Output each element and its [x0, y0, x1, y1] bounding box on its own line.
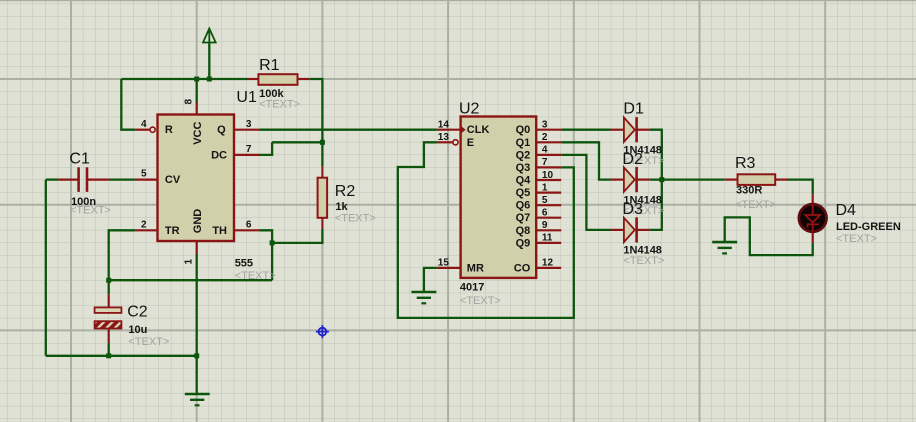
ground (U2 MR) [411, 292, 436, 303]
wire TR vertical to C2 [109, 230, 135, 294]
svg-text:12: 12 [542, 258, 554, 269]
wire U2 Q8 stub [536, 229, 561, 231]
svg-text:7: 7 [246, 144, 252, 155]
wire R3 right stub [775, 179, 787, 181]
svg-text:<TEXT>: <TEXT> [259, 99, 300, 111]
wire D1 cathode stub [638, 129, 650, 131]
svg-text:1: 1 [184, 259, 195, 265]
svg-text:Q2: Q2 [516, 149, 531, 161]
svg-text:<TEXT>: <TEXT> [460, 295, 501, 307]
svg-text:R2: R2 [335, 183, 356, 200]
node DC junction [320, 140, 325, 145]
wire 555 pin3 stub [234, 129, 260, 131]
wire C1 left [46, 178, 59, 180]
svg-text:5: 5 [542, 195, 548, 206]
wire U2 Q6 stub [536, 204, 561, 206]
resistor R3 [735, 155, 776, 211]
svg-text:Q8: Q8 [516, 225, 531, 237]
svg-text:330R: 330R [736, 185, 762, 197]
wire U2 Q5 stub [536, 192, 561, 194]
wire R3 left stub [725, 179, 738, 181]
node pin8-rail junction [194, 77, 199, 82]
wire 555 pin6 stub [234, 229, 260, 231]
wire U2 Q2 stub [536, 154, 561, 156]
wire U2 Q1 stub [536, 141, 561, 143]
svg-text:Q0: Q0 [516, 124, 531, 136]
svg-text:1: 1 [542, 182, 548, 193]
node D2-R3 junction [659, 177, 664, 182]
svg-text:C1: C1 [69, 150, 90, 167]
wire Q to CLK [260, 129, 437, 131]
wire D1 anode stub [611, 129, 624, 131]
node TR-C2 junction [106, 278, 111, 283]
svg-text:<TEXT>: <TEXT> [70, 205, 111, 217]
svg-text:R: R [165, 124, 173, 136]
svg-text:E: E [467, 137, 474, 149]
wire C2 bottom stub [108, 329, 110, 344]
wire DC elbow [260, 142, 273, 155]
wire 555 pin1 stub [196, 241, 198, 254]
svg-text:C2: C2 [127, 304, 148, 321]
wire U2 CO stub [536, 267, 561, 269]
wire Q0 to D1 [561, 129, 610, 131]
diode D1 1N4148 [623, 101, 664, 168]
svg-text:5: 5 [141, 169, 147, 180]
wire D1 cathode down [649, 130, 662, 230]
svg-text:DC: DC [211, 149, 227, 161]
wire D3 anode stub [611, 229, 624, 231]
svg-text:Q4: Q4 [516, 175, 532, 187]
svg-text:10: 10 [542, 170, 554, 181]
wire U2 E stub [437, 141, 453, 143]
svg-text:D3: D3 [622, 201, 643, 218]
svg-text:<TEXT>: <TEXT> [335, 213, 376, 225]
wire Q2 to D3 [561, 155, 610, 230]
svg-text:14: 14 [438, 120, 450, 131]
wire D2 cathode stub [638, 179, 650, 181]
capacitor C2 polarized [95, 304, 170, 348]
node TH-R2 junction [270, 240, 275, 245]
wire C2 top stub [108, 294, 110, 307]
svg-text:2: 2 [542, 132, 548, 143]
svg-text:CV: CV [165, 174, 181, 186]
svg-text:D4: D4 [836, 202, 857, 219]
wire MR to ground [424, 268, 437, 292]
svg-text:11: 11 [542, 233, 553, 244]
svg-text:Q6: Q6 [516, 200, 531, 212]
wire power arrow drop [208, 42, 210, 79]
svg-text:<TEXT>: <TEXT> [128, 336, 169, 348]
wire U2 MR stub [437, 267, 461, 269]
svg-text:D1: D1 [623, 101, 644, 118]
wire U2 Q0 stub [536, 129, 561, 131]
op-amp U1 555 timer body [141, 99, 252, 265]
svg-text:13: 13 [438, 132, 450, 143]
wire R3 to LED [788, 180, 813, 195]
diode D3 1N4148 [622, 201, 664, 267]
wire 555 pin4 stub [135, 129, 150, 131]
node arrow-rail junction [207, 77, 212, 82]
svg-text:4017: 4017 [460, 281, 484, 293]
svg-text:U1: U1 [236, 89, 257, 106]
wire 555 pin5 stub [135, 179, 158, 181]
wire D3 cathode stub [638, 229, 650, 231]
svg-text:3: 3 [542, 120, 548, 131]
capacitor C1 [69, 150, 111, 216]
ground (555 pin1) [185, 394, 210, 405]
svg-text:555: 555 [235, 258, 253, 270]
svg-text:1k: 1k [335, 201, 348, 213]
svg-text:Q: Q [217, 124, 226, 136]
svg-text:Q7: Q7 [516, 212, 531, 224]
ground (LED return) [712, 242, 737, 253]
svg-text:MR: MR [467, 262, 484, 274]
svg-text:15: 15 [438, 258, 450, 269]
svg-text:<TEXT>: <TEXT> [836, 233, 877, 245]
svg-text:<TEXT>: <TEXT> [235, 270, 276, 282]
wire pin8 top [196, 79, 198, 103]
svg-text:Q3: Q3 [516, 162, 531, 174]
wire LED bottom path [725, 217, 813, 255]
wire D2 anode stub [611, 179, 624, 181]
wire LED bottom stub [812, 232, 814, 243]
wire TH elbow [260, 230, 273, 280]
resistor R2 [318, 166, 376, 228]
svg-text:CO: CO [514, 262, 531, 274]
wire C2 bottom [108, 343, 110, 356]
svg-text:4: 4 [141, 119, 147, 130]
svg-text:3: 3 [246, 119, 252, 130]
svg-text:GND: GND [192, 209, 204, 234]
node C2-bottom junction [106, 353, 111, 358]
svg-text:7: 7 [542, 157, 548, 168]
IC U2 4017 body [438, 101, 554, 308]
svg-text:<TEXT>: <TEXT> [623, 255, 664, 267]
wire R1 left stub [247, 78, 258, 80]
wire U2 Q7 stub [536, 217, 561, 219]
svg-text:VCC: VCC [192, 122, 204, 145]
wire pin1 to ground [196, 254, 198, 394]
resistor R1 [258, 57, 297, 85]
wire C1 left stub [58, 179, 77, 181]
svg-text:6: 6 [246, 219, 252, 230]
wire D2 cathode to R3 [649, 178, 725, 180]
wire U2 Q9 stub [536, 242, 561, 244]
svg-text:Q9: Q9 [516, 237, 531, 249]
wire left long vertical [45, 180, 47, 356]
svg-text:<TEXT>: <TEXT> [735, 199, 776, 211]
svg-text:CLK: CLK [467, 124, 490, 136]
svg-text:R3: R3 [735, 155, 756, 172]
node origin marker [316, 325, 329, 338]
wire bottom left horizontal [46, 355, 197, 357]
wire R2 bottom elbow [272, 229, 322, 243]
svg-text:4: 4 [542, 145, 548, 156]
wire R1 right stub [298, 78, 310, 80]
wire 555 pin8 stub [196, 103, 198, 115]
svg-text:8: 8 [184, 99, 195, 105]
svg-text:9: 9 [542, 220, 548, 231]
svg-text:TR: TR [165, 225, 180, 237]
wire Q1 to D2 [561, 142, 610, 179]
wire DC junction horizontal [272, 141, 322, 143]
svg-text:Q5: Q5 [516, 187, 531, 199]
svg-text:U2: U2 [459, 101, 480, 118]
wire top rail [121, 78, 247, 80]
wire C1 right to CV [109, 178, 135, 180]
power VCC arrow [203, 29, 216, 43]
wire reset loop vertical [121, 79, 135, 130]
diode D2 1N4148 [622, 151, 664, 217]
svg-text:6: 6 [542, 208, 548, 219]
svg-text:LED-GREEN: LED-GREEN [836, 221, 901, 233]
wire bottom mid horizontal [109, 279, 272, 281]
svg-text:10u: 10u [128, 324, 147, 336]
wire R1 right to R2 column [310, 79, 323, 166]
wire U2 Q4 stub [536, 179, 561, 181]
wire E pin loop [398, 142, 574, 318]
wire LED top stub [812, 194, 814, 204]
svg-text:Q1: Q1 [516, 137, 531, 149]
svg-text:TH: TH [212, 225, 227, 237]
wire 555 pin7 stub [234, 154, 260, 156]
svg-text:D2: D2 [622, 151, 643, 168]
wire C1 right stub [88, 179, 109, 181]
svg-text:2: 2 [141, 219, 147, 230]
LED D4 green [799, 202, 901, 245]
node pin1-bottom junction [194, 353, 199, 358]
wire 555 pin2 stub [135, 229, 158, 231]
svg-text:R1: R1 [259, 57, 280, 74]
wire U2 Q3 stub [536, 166, 561, 168]
wire U2 CLK stub [437, 129, 461, 131]
U1 labels [235, 88, 300, 282]
